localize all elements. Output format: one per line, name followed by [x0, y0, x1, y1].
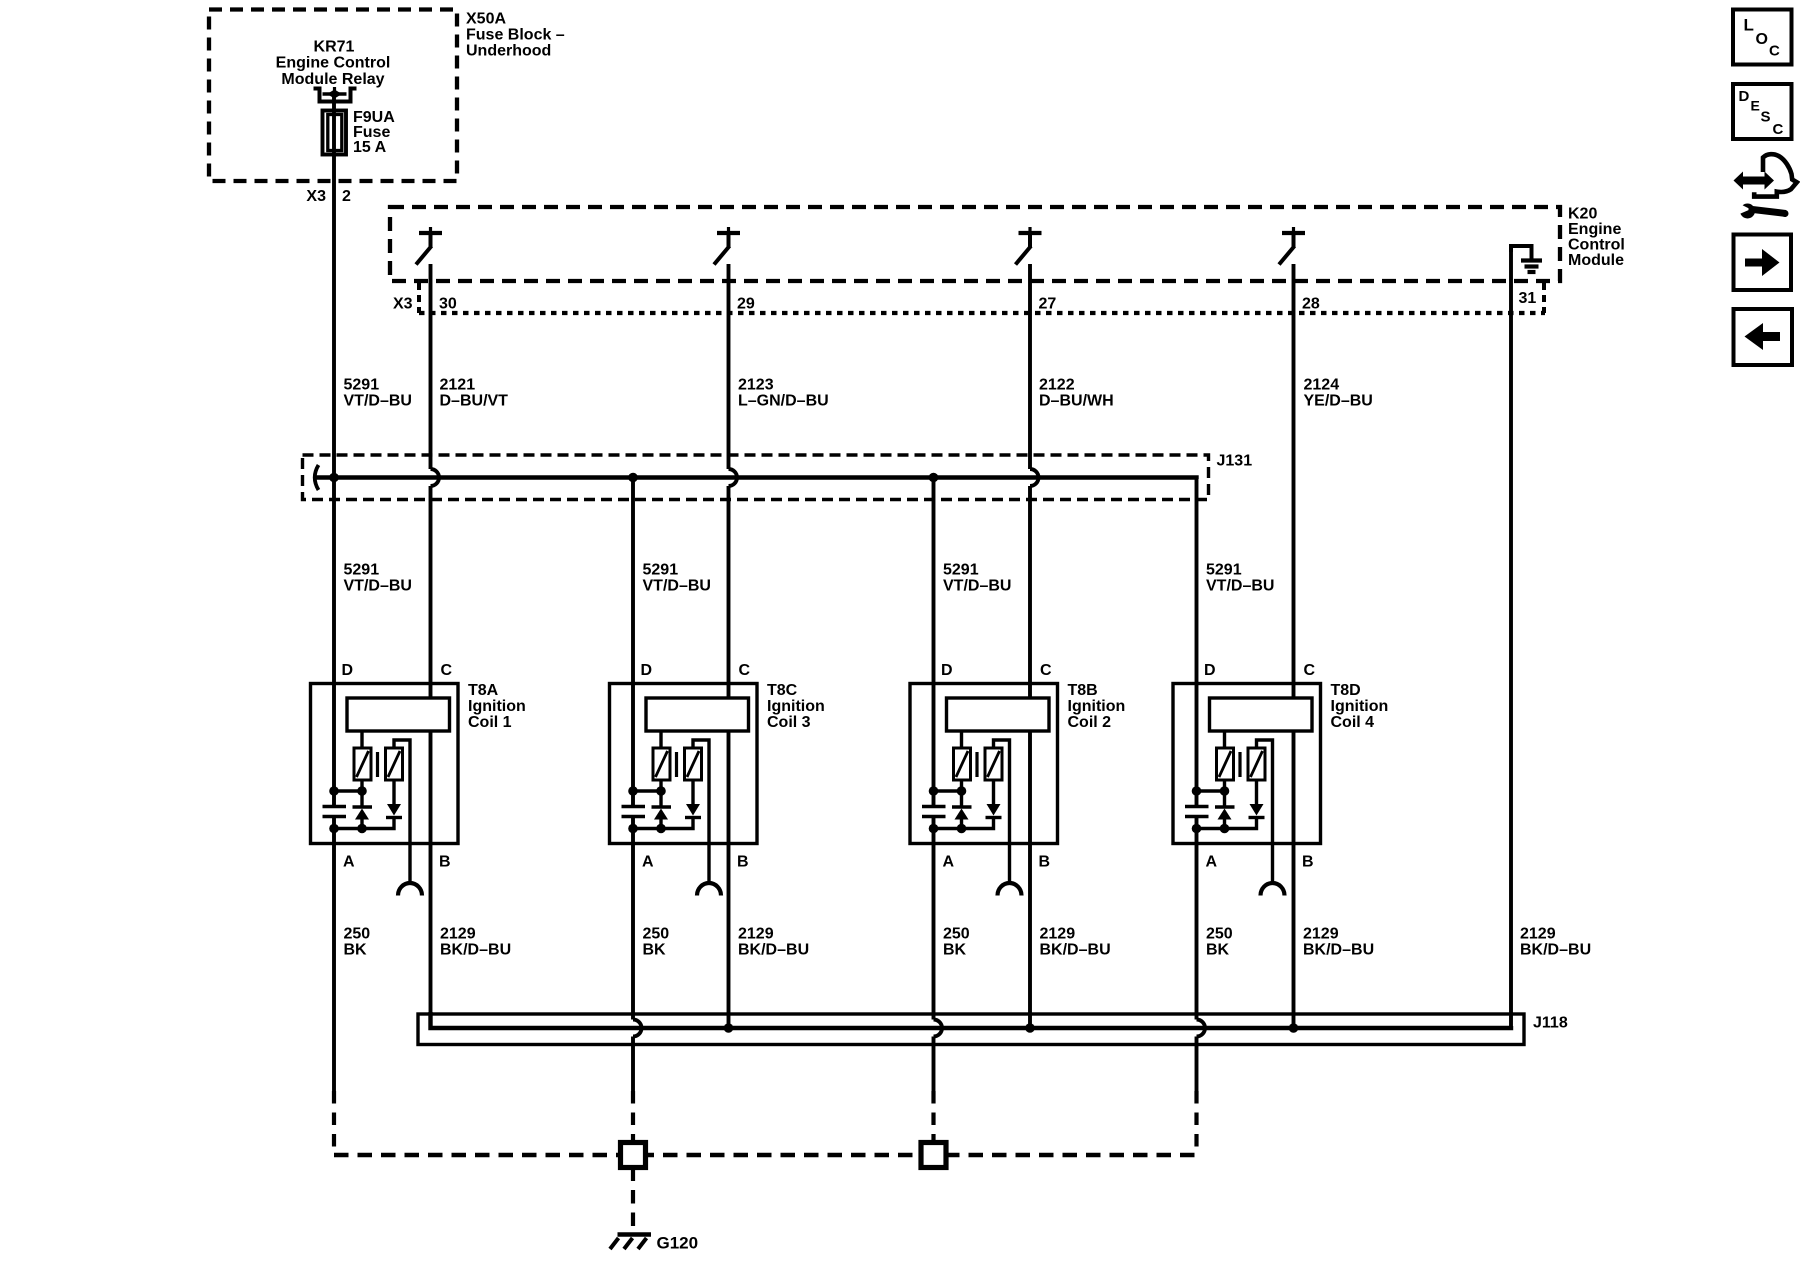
svg-text:250: 250: [1206, 926, 1233, 943]
wire label 2121: [440, 377, 509, 410]
svg-text:2129: 2129: [1040, 926, 1076, 943]
wire coil pin A through J118 (circuit 250) upper: [932, 817, 936, 1020]
label K20 Engine Control Module: [1568, 206, 1625, 270]
svg-text:2129: 2129: [1520, 926, 1556, 943]
junction node: [329, 786, 339, 796]
svg-text:BK/D–BU: BK/D–BU: [440, 942, 511, 959]
junction node: [1192, 824, 1202, 834]
wire label 2129 BK/D-BU: [1303, 926, 1374, 959]
svg-text:D: D: [1204, 662, 1216, 679]
svg-text:2129: 2129: [738, 926, 774, 943]
svg-text:VT/D–BU: VT/D–BU: [344, 578, 412, 595]
wire crossover hop at J131: [431, 469, 440, 486]
ignition coil T8C (Coil 3) outer box: [610, 684, 758, 844]
svg-text:S: S: [1761, 109, 1771, 126]
wire pin 30 to ignition coil pin C (lower segment): [429, 486, 433, 699]
coil primary winding: [354, 731, 371, 780]
junction node at J118 bus: [724, 1023, 734, 1033]
ground G120 symbol: [610, 1235, 651, 1250]
svg-text:X50A: X50A: [466, 11, 506, 28]
coil ground bus to pin A: [1197, 818, 1257, 829]
svg-text:B: B: [1039, 854, 1051, 871]
junction node: [628, 824, 638, 834]
wire D node to diode branch: [1197, 789, 1225, 792]
svg-text:X3: X3: [306, 188, 326, 205]
label F9UA Fuse 15 A: [353, 109, 395, 156]
svg-text:2: 2: [342, 188, 351, 205]
pin label C: [739, 662, 751, 679]
pin 28: [1302, 296, 1320, 313]
pin label A: [343, 854, 355, 871]
junction node: [957, 786, 967, 796]
wire coil pin B to J118 (circuit 2129): [1028, 731, 1032, 1028]
fuse F9UA 15A symbol: [323, 111, 347, 155]
svg-text:BK: BK: [943, 942, 967, 959]
wire label 2129 BK/D-BU: [738, 926, 809, 959]
junction node: [957, 824, 967, 834]
splice pack J131 dashed box: [303, 455, 1209, 500]
icon DESC button: [1733, 84, 1792, 139]
coil ground bus to pin A: [934, 818, 994, 829]
wire label 2129 BK/D-BU: [440, 926, 511, 959]
svg-text:BK: BK: [1206, 942, 1230, 959]
icon back arrow button: [1734, 309, 1793, 365]
diode (secondary branch): [986, 780, 1002, 818]
svg-text:2123: 2123: [738, 377, 774, 394]
svg-text:Engine Control: Engine Control: [276, 55, 391, 72]
spark plug arc: [998, 883, 1022, 896]
pin label A: [1206, 854, 1218, 871]
svg-text:B: B: [1302, 854, 1314, 871]
wire label 5291 VT/D-BU: [1206, 562, 1274, 595]
svg-text:5291: 5291: [344, 377, 380, 394]
svg-text:C: C: [1304, 662, 1316, 679]
label J131: [1217, 453, 1253, 470]
wire coil pin A through J118 (circuit 250) upper: [1195, 817, 1199, 1020]
svg-text:250: 250: [344, 926, 371, 943]
junction node: [329, 824, 339, 834]
dashed wire grommet to ground G120: [631, 1168, 635, 1233]
wire coil pin A through J118 (circuit 250) upper: [631, 817, 635, 1020]
coil secondary winding: [1248, 748, 1265, 780]
pin label X3 2 (fuse block output): [306, 188, 351, 205]
pin label D: [941, 662, 953, 679]
dashed wire coil2 A to ground splice grommet: [931, 1091, 935, 1143]
diode (secondary branch): [685, 780, 701, 818]
svg-text:2129: 2129: [440, 926, 476, 943]
junction node: [1220, 824, 1230, 834]
pin 31: [1519, 290, 1537, 307]
coil secondary winding: [386, 748, 403, 780]
pin label A: [642, 854, 654, 871]
wire label 250 BK: [643, 926, 670, 959]
svg-text:K20: K20: [1568, 206, 1597, 223]
wire D node to diode branch: [633, 789, 661, 792]
svg-text:Engine: Engine: [1568, 221, 1621, 238]
svg-text:O: O: [1756, 31, 1768, 48]
wire label 250 BK: [344, 926, 371, 959]
J118 splice bus: [431, 1012, 1512, 1028]
diode (avalanche, mid branch): [952, 780, 972, 829]
coil primary winding: [1217, 731, 1234, 780]
wire coil pin B to J118 (circuit 2129): [429, 731, 433, 1028]
pin label D: [641, 662, 653, 679]
label T8C Ignition Coil 3: [767, 682, 825, 731]
junction node: [357, 786, 367, 796]
junction node: [929, 786, 939, 796]
relay KR71 contact symbol: [314, 87, 357, 102]
svg-text:YE/D–BU: YE/D–BU: [1304, 393, 1373, 410]
coil primary winding: [954, 731, 971, 780]
wire J131 to ignition coil 2 pin D (circuit 5291): [932, 478, 936, 806]
svg-text:Ignition: Ignition: [468, 698, 526, 715]
junction node (coil 3 feed): [628, 473, 638, 483]
svg-text:T8A: T8A: [468, 682, 499, 699]
pin label C: [441, 662, 453, 679]
label J118: [1533, 1015, 1568, 1032]
wire J131 to ignition coil 4 pin D (circuit 5291): [1195, 478, 1199, 806]
ignition coil T8A (Coil 1) outer box: [311, 684, 459, 844]
J131 splice bus: [313, 478, 1197, 480]
diode (avalanche, mid branch): [1215, 780, 1235, 829]
pin label D: [1204, 662, 1216, 679]
wire coil pin B to J118 (circuit 2129): [1292, 731, 1296, 1028]
wire crossover hop at J118: [1197, 1020, 1206, 1037]
svg-text:J131: J131: [1217, 453, 1253, 470]
svg-text:D: D: [641, 662, 653, 679]
svg-text:Coil 3: Coil 3: [767, 714, 811, 731]
spark plug arc: [1261, 883, 1285, 896]
svg-text:VT/D–BU: VT/D–BU: [1206, 578, 1274, 595]
switch (driver output 28) inside K20: [1279, 227, 1305, 265]
pin 27: [1039, 296, 1057, 313]
coil secondary winding: [685, 748, 702, 780]
capacitor: [1185, 807, 1209, 817]
svg-text:BK/D–BU: BK/D–BU: [1040, 942, 1111, 959]
svg-text:5291: 5291: [344, 562, 380, 579]
coil internal connector bar: [947, 698, 1050, 731]
grommet square (splice): [921, 1143, 946, 1168]
svg-text:2124: 2124: [1304, 377, 1340, 394]
pin label B: [737, 854, 749, 871]
diode (secondary branch): [1249, 780, 1265, 818]
svg-text:VT/D–BU: VT/D–BU: [943, 578, 1011, 595]
coil internal connector bar: [1210, 698, 1313, 731]
pin 30: [439, 296, 457, 313]
svg-text:Control: Control: [1568, 237, 1625, 254]
svg-text:C: C: [1769, 43, 1780, 60]
svg-text:C: C: [1773, 121, 1784, 138]
wire label 2129 BK/D-BU: [1040, 926, 1111, 959]
ignition coil T8B (Coil 2) outer box: [910, 684, 1058, 844]
svg-text:D–BU/VT: D–BU/VT: [440, 393, 509, 410]
svg-text:5291: 5291: [643, 562, 679, 579]
wire pin 27 to ignition coil pin C (lower segment): [1028, 486, 1032, 699]
svg-text:A: A: [642, 854, 654, 871]
dashed wire coil1 A to ground bus: [332, 1091, 336, 1155]
svg-text:BK/D–BU: BK/D–BU: [1520, 942, 1591, 959]
svg-text:C: C: [1040, 662, 1052, 679]
label G120: [657, 1234, 699, 1253]
wire pin 30 to ignition coil pin C (upper segment): [429, 264, 433, 469]
coil core: [1238, 752, 1241, 777]
label T8A Ignition Coil 1: [468, 682, 526, 731]
diode (avalanche, mid branch): [652, 780, 672, 829]
wire crossover hop at J131: [1030, 469, 1039, 486]
J131 bus entry hook: [315, 465, 319, 490]
wire label 5291 VT/D-BU: [344, 562, 412, 595]
svg-text:G120: G120: [657, 1234, 699, 1253]
svg-text:L–GN/D–BU: L–GN/D–BU: [738, 393, 829, 410]
pin label A: [943, 854, 955, 871]
wire coil pin A to ground splice (circuit 250): [332, 817, 336, 1091]
coil internal connector bar: [347, 698, 450, 731]
svg-text:B: B: [439, 854, 451, 871]
switch (driver output 30) inside K20: [416, 227, 442, 265]
pin 29: [737, 296, 755, 313]
icon LOC button: [1733, 10, 1792, 65]
capacitor: [622, 807, 646, 817]
wire D node to diode branch: [334, 789, 362, 792]
wire pin 28 to ignition coil pin C: [1292, 264, 1296, 699]
wire label 2124: [1304, 377, 1373, 410]
capacitor: [323, 807, 347, 817]
svg-text:Fuse Block –: Fuse Block –: [466, 27, 565, 44]
wire pin 27 to ignition coil pin C (upper segment): [1028, 264, 1032, 469]
junction node at J118 bus: [1289, 1023, 1299, 1033]
svg-text:2129: 2129: [1303, 926, 1339, 943]
svg-text:29: 29: [737, 296, 755, 313]
svg-text:B: B: [737, 854, 749, 871]
svg-text:D: D: [1739, 88, 1750, 105]
junction node at J118 bus: [1025, 1023, 1035, 1033]
splice J118 outer box: [418, 1014, 1524, 1045]
pin label C: [1304, 662, 1316, 679]
svg-text:30: 30: [439, 296, 457, 313]
wire label 5291 VT/D-BU: [943, 562, 1011, 595]
svg-text:Module: Module: [1568, 252, 1624, 269]
svg-text:D–BU/WH: D–BU/WH: [1039, 393, 1114, 410]
spark plug arc: [697, 883, 721, 896]
svg-text:Ignition: Ignition: [1068, 698, 1126, 715]
junction node: [929, 824, 939, 834]
svg-text:L: L: [1744, 16, 1754, 35]
svg-text:Coil 4: Coil 4: [1331, 714, 1375, 731]
wire secondary to spark plug tower: [693, 740, 709, 881]
svg-text:T8C: T8C: [767, 682, 798, 699]
grommet square (splice): [621, 1143, 646, 1168]
label KR71 Engine Control Module Relay: [276, 39, 391, 89]
wire label 5291 VT/D-BU: [643, 562, 711, 595]
junction node (coil 2 feed): [929, 473, 939, 483]
pin label D: [342, 662, 354, 679]
svg-text:T8D: T8D: [1331, 682, 1361, 699]
coil ground bus to pin A: [633, 818, 693, 829]
wire coil pin B to J118 (circuit 2129): [727, 731, 731, 1028]
svg-text:250: 250: [943, 926, 970, 943]
fuse block X50A dashed box: [209, 10, 457, 182]
label T8D Ignition Coil 4: [1331, 682, 1389, 731]
icon diagnostic (arrows and wrench): [1734, 154, 1797, 218]
junction node: [656, 824, 666, 834]
svg-text:250: 250: [643, 926, 670, 943]
ignition coil T8D (Coil 4) outer box: [1173, 684, 1321, 844]
wire label 2129 BK/D-BU (ECM ground wire): [1520, 926, 1591, 959]
svg-text:J118: J118: [1533, 1015, 1568, 1032]
junction node: [1192, 786, 1202, 796]
junction node: [628, 786, 638, 796]
wire coil pin A lower segment: [631, 1037, 635, 1092]
svg-text:BK/D–BU: BK/D–BU: [738, 942, 809, 959]
svg-text:T8B: T8B: [1068, 682, 1098, 699]
connector edge tick left: [417, 283, 421, 313]
svg-text:E: E: [1751, 98, 1760, 114]
pin label B: [439, 854, 451, 871]
wire coil pin A lower segment: [1195, 1037, 1199, 1092]
wire D node to diode branch: [934, 789, 962, 792]
svg-text:5291: 5291: [1206, 562, 1242, 579]
svg-text:BK: BK: [643, 942, 667, 959]
wire pin 29 to ignition coil pin C (upper segment): [727, 264, 731, 469]
diode (avalanche, mid branch): [353, 780, 373, 829]
wire secondary to spark plug tower: [1257, 740, 1273, 881]
coil ground bus to pin A: [334, 818, 394, 829]
wire J131 to ignition coil 3 pin D (circuit 5291): [631, 478, 635, 806]
coil core: [975, 752, 978, 777]
wire crossover hop at J118: [633, 1020, 642, 1037]
coil internal connector bar: [646, 698, 749, 731]
switch (driver output 29) inside K20: [714, 227, 740, 265]
wire coil pin A lower segment: [932, 1037, 936, 1092]
label T8B Ignition Coil 2: [1068, 682, 1126, 731]
svg-text:A: A: [343, 854, 355, 871]
svg-text:BK: BK: [344, 942, 368, 959]
svg-text:27: 27: [1039, 296, 1057, 313]
svg-text:C: C: [739, 662, 751, 679]
wire ECM pin 31 ground to J118 (circuit 2129): [1509, 246, 1513, 1028]
pin label X3 (ECM): [393, 296, 413, 313]
pin label B: [1039, 854, 1051, 871]
spark plug arc: [398, 883, 422, 896]
svg-text:X3: X3: [393, 296, 413, 313]
svg-text:A: A: [1206, 854, 1218, 871]
svg-text:Coil 2: Coil 2: [1068, 714, 1112, 731]
icon next arrow button: [1734, 235, 1792, 291]
svg-text:VT/D–BU: VT/D–BU: [643, 578, 711, 595]
svg-text:Ignition: Ignition: [1331, 698, 1389, 715]
junction node (5291 feed): [329, 473, 339, 483]
wire label 5291 VT/D-BU (top): [344, 377, 412, 410]
switch (driver output 27) inside K20: [1016, 227, 1042, 265]
wire crossover hop at J118: [934, 1020, 943, 1037]
label X50A Fuse Block - Underhood: [466, 11, 565, 60]
svg-text:D: D: [941, 662, 953, 679]
svg-text:28: 28: [1302, 296, 1320, 313]
svg-text:A: A: [943, 854, 955, 871]
wire secondary to spark plug tower: [394, 740, 410, 881]
coil core: [376, 752, 379, 777]
svg-text:15 A: 15 A: [353, 139, 387, 156]
svg-text:KR71: KR71: [314, 39, 355, 56]
wire crossover hop at J131: [729, 469, 738, 486]
wire relay to fuse to J131 to coil1 pin D (circuit 5291): [332, 94, 336, 806]
capacitor: [922, 807, 946, 817]
junction node: [656, 786, 666, 796]
wire label 2122: [1039, 377, 1114, 410]
svg-text:5291: 5291: [943, 562, 979, 579]
svg-text:Underhood: Underhood: [466, 43, 551, 60]
wire label 250 BK: [943, 926, 970, 959]
wire label 250 BK: [1206, 926, 1233, 959]
junction node: [357, 824, 367, 834]
svg-text:31: 31: [1519, 290, 1537, 307]
ECM K20 dashed box: [390, 207, 1560, 281]
wire label 2123: [738, 377, 829, 410]
ECM connector pin row dotted line: [419, 311, 1545, 315]
wire pin 29 to ignition coil pin C (lower segment): [727, 486, 731, 699]
svg-text:VT/D–BU: VT/D–BU: [344, 393, 412, 410]
svg-text:D: D: [342, 662, 354, 679]
dashed wire coil4 A to ground bus: [1194, 1091, 1198, 1155]
coil secondary winding: [985, 748, 1002, 780]
dashed ground bus G120: [334, 1153, 1197, 1157]
svg-text:2122: 2122: [1039, 377, 1075, 394]
svg-text:2121: 2121: [440, 377, 476, 394]
svg-text:Ignition: Ignition: [767, 698, 825, 715]
pin label C: [1040, 662, 1052, 679]
pin label B: [1302, 854, 1314, 871]
junction node: [1220, 786, 1230, 796]
connector edge tick right: [1542, 283, 1546, 313]
svg-text:BK/D–BU: BK/D–BU: [1303, 942, 1374, 959]
svg-text:Coil 1: Coil 1: [468, 714, 512, 731]
dashed wire coil3 A to ground splice grommet: [631, 1091, 635, 1143]
coil core: [675, 752, 678, 777]
svg-text:C: C: [441, 662, 453, 679]
ground symbol inside K20: [1511, 246, 1542, 272]
coil primary winding: [653, 731, 670, 780]
svg-text:Module Relay: Module Relay: [281, 71, 384, 88]
diode (secondary branch): [386, 780, 402, 818]
wire secondary to spark plug tower: [994, 740, 1010, 881]
